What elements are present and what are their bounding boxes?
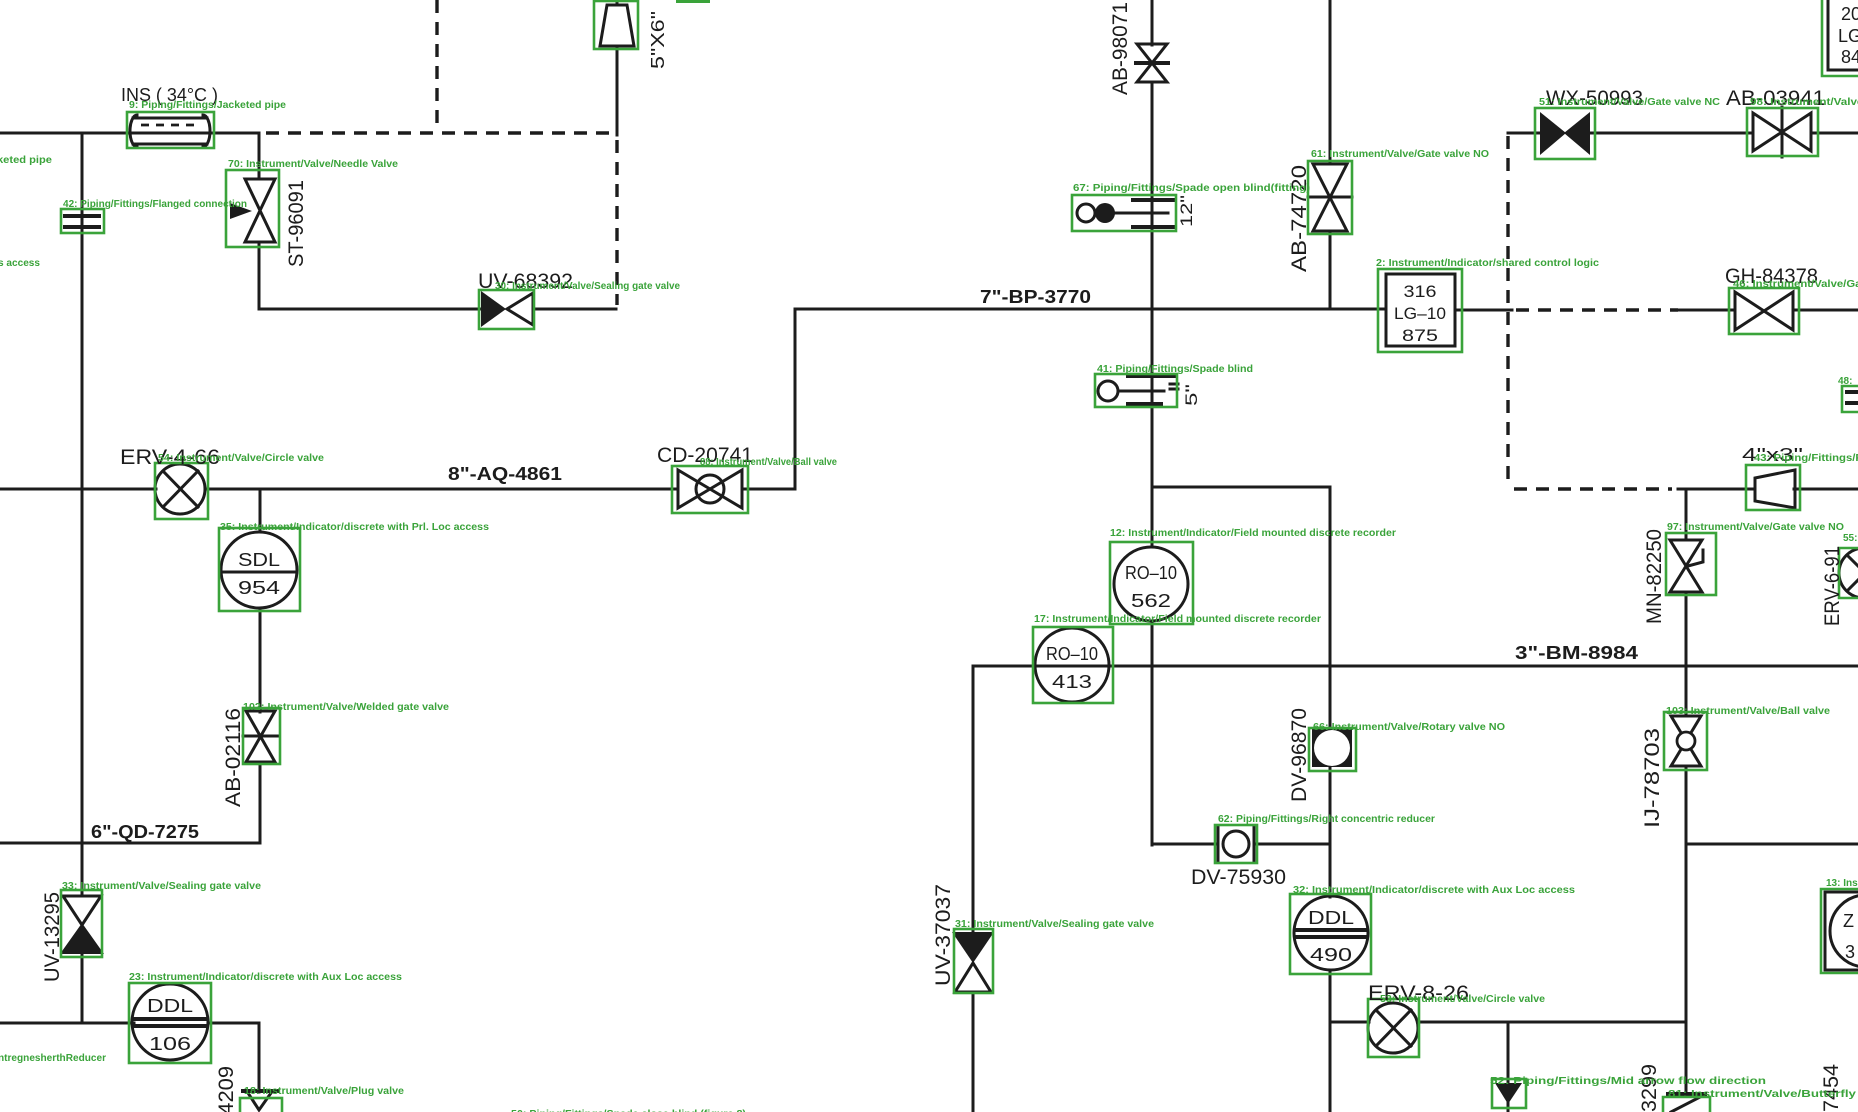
bbox AB-03941 — [1747, 108, 1818, 156]
wire: dashed vertical x=617 down to 7in line — [615, 140, 618, 305]
svg-text:88: Instrument/Valve/Ball valv: 88: Instrument/Valve/Ball valve — [700, 457, 837, 468]
svg-text:17454: 17454 — [1820, 1064, 1843, 1112]
bbox 5x6 reducer — [594, 1, 638, 49]
valve AB-03941 — [1753, 107, 1811, 157]
welded gate valve AB-02116 — [243, 711, 278, 762]
svg-text:DV-75930: DV-75930 — [1191, 866, 1286, 889]
svg-text:Z: Z — [1843, 911, 1854, 931]
svg-text:keted pipe: keted pipe — [0, 155, 52, 166]
svg-text:23: Instrument/Indicator/discr: 23: Instrument/Indicator/discrete with A… — [129, 972, 402, 983]
bbox flanged connection — [61, 209, 104, 233]
wire: DDL-106 run y=1023 right of circle to corner — [208, 1022, 259, 1025]
svg-text:562: 562 — [1131, 591, 1171, 611]
wire: dashed vertical x=437 top — [435, 0, 438, 129]
svg-text:954: 954 — [238, 578, 280, 598]
wire: reducer run y=844 DV-75930 to x=1330 — [1254, 843, 1330, 846]
wire: vertical from needle valve to 7in-BP line — [258, 243, 261, 309]
wire: vertical x=973 from 3in line to UV-37037 — [972, 666, 975, 932]
wire: vertical x=1152 from RO-562 down to corner — [1151, 621, 1154, 845]
svg-text:70: Instrument/Valve/Needle Va: 70: Instrument/Valve/Needle Valve — [228, 159, 398, 170]
wire: 3in-BM-8984 line y=666 — [973, 665, 1858, 668]
wire: vertical x=1330 from branch corner to DV-96870 — [1329, 487, 1332, 730]
svg-text:2: Instrument/Indicator/shared: 2: Instrument/Indicator/shared control l… — [1376, 258, 1599, 269]
gate valve NC WX-50993 (filled) — [1540, 112, 1590, 155]
instrument ZI (partial right edge) — [1825, 892, 1858, 970]
wire: dashed signal line y=133 from corner to reducer drop — [266, 131, 613, 134]
svg-text:51: Instrument/Valve/Gate valv: 51: Instrument/Valve/Gate valve NC — [1539, 97, 1720, 108]
svg-text:48:: 48: — [1838, 376, 1852, 387]
svg-text:9: Piping/Fittings/Jacketed pi: 9: Piping/Fittings/Jacketed pipe — [129, 100, 286, 111]
wire: far-left vertical header x=82 — [81, 133, 84, 896]
svg-text:MN-82250: MN-82250 — [1643, 529, 1666, 624]
bbox RO-413 — [1033, 627, 1113, 703]
svg-text:413: 413 — [1052, 672, 1092, 692]
indicator DDL-106 — [132, 984, 208, 1060]
bbox UV-37037 — [954, 929, 993, 993]
svg-text:ntregnesherth­Reducer: ntregnesherth­Reducer — [0, 1053, 106, 1064]
svg-text:IJ-78703: IJ-78703 — [1641, 728, 1664, 828]
wire: AB-74720 vertical below valve to 7in line — [1329, 232, 1332, 309]
wire: 7in-BP-3770 line from riser to 316 logic box — [795, 308, 1385, 311]
svg-text:UV-13295: UV-13295 — [41, 892, 64, 982]
sealing gate valve UV-13295 — [60, 896, 104, 954]
svg-text:52: Piping/Fittings/Mid arrow: 52: Piping/Fittings/Mid arrow flow direc… — [1490, 1076, 1766, 1087]
ball valve IJ-78703 — [1671, 716, 1701, 766]
wire: drop x=1508 from ERV line through flow arrow — [1507, 1022, 1510, 1084]
4x3 concentric reducer — [1755, 470, 1795, 508]
svg-text:103: Instrument/Valve/Ball val: 103: Instrument/Valve/Ball valve — [1666, 706, 1830, 717]
svg-text:RO–10: RO–10 — [1046, 644, 1098, 664]
flanged connection 48 (partial right edge) — [1847, 392, 1858, 403]
wire: dashed vertical x=1508 — [1506, 136, 1509, 487]
rotary valve NO DV-96870 — [1312, 729, 1352, 767]
wire: DDL-106 run y=1023 from left edge — [0, 1022, 134, 1025]
bbox ERV-6-91 (partial) — [1839, 548, 1858, 598]
svg-text:490: 490 — [1310, 945, 1352, 965]
svg-text:42: Piping/Fittings/Flanged co: 42: Piping/Fittings/Flanged connection — [63, 199, 247, 210]
jacketed pipe INS(34C) — [129, 115, 211, 147]
wire: riser x=795 from 8in line up to 7in line — [794, 309, 797, 489]
wire: AB-74720 vertical above valve — [1329, 0, 1332, 163]
gate valve GH-84378 — [1735, 292, 1793, 330]
bbox AB-02116 — [243, 708, 280, 764]
5x6 concentric reducer top — [600, 5, 634, 46]
svg-text:20: 20 — [1841, 4, 1858, 24]
wire: vertical from corner down to needle valve ST-96091 — [258, 133, 261, 179]
bbox needle valve — [226, 170, 279, 247]
svg-text:66: Instrument/Valve/Rotary va: 66: Instrument/Valve/Rotary valve NO — [1313, 722, 1505, 733]
wire: line y=133 between jacketed pipe and corner — [209, 132, 259, 135]
svg-text:46: Instrument/Valve/Gate valv: 46: Instrument/Valve/Gate valve — [1733, 279, 1858, 290]
recorder RO-10 562 — [1114, 547, 1188, 621]
bbox UV-13295 — [61, 890, 102, 957]
gate valve AB-98071 — [1136, 44, 1168, 82]
svg-text:81: Instrument/Valve/Butterfly: 81: Instrument/Valve/Butterfly valve — [1668, 1089, 1858, 1100]
bbox 4x3 reducer — [1746, 465, 1800, 510]
wire: y=133 right of AB-03941 to edge — [1812, 132, 1858, 135]
bbox butterfly valve (partial) — [1663, 1097, 1710, 1112]
svg-text:AB-98071: AB-98071 — [1109, 2, 1132, 95]
wire: solid y=310 to GH-84378 — [1678, 309, 1735, 312]
svg-text:54: Instrument/Valve/Circle va: 54: Instrument/Valve/Circle valve — [158, 453, 324, 464]
bbox plug valve — [240, 1098, 282, 1112]
svg-text:ST-96091: ST-96091 — [285, 180, 308, 267]
sealing gate valve UV-68392 — [481, 291, 533, 327]
wire: y=489 right of 4x3 reducer to edge — [1794, 488, 1858, 491]
wire: ERV-8-26 run y=1022 left segment — [1330, 1021, 1369, 1024]
svg-text:7"-BP-3770: 7"-BP-3770 — [980, 287, 1091, 307]
circle valve ERV-4-66 — [155, 464, 205, 514]
butterfly valve bottom right (partial) — [1668, 1094, 1705, 1112]
wire: y=133 between WX-50993 and AB-03941 — [1589, 132, 1753, 135]
wire: x=1686 MN-82250 to 3in line — [1685, 593, 1688, 666]
gate valve NO AB-74720 — [1308, 164, 1352, 231]
bbox DDL-106 — [129, 983, 211, 1063]
wire: top gate line y=133 from dashed corner to WX-50993 — [1508, 132, 1541, 135]
wire: dashed y=489 from x=1508 to corner — [1514, 487, 1672, 490]
wire: vertical x=1330 DV-96870 to DDL-490 — [1329, 767, 1332, 897]
flow arrow 52 — [1495, 1083, 1522, 1104]
bbox ERV-8-26 — [1368, 999, 1419, 1057]
svg-text:55:: 55: — [1843, 533, 1857, 544]
bbox MN-82250 — [1666, 533, 1716, 595]
svg-text:17: Instrument/Indicator/Field: 17: Instrument/Indicator/Field mounted d… — [1034, 614, 1321, 625]
svg-text:SDL: SDL — [238, 550, 280, 570]
svg-text:-4209: -4209 — [215, 1066, 238, 1112]
svg-text:3"-BM-8984: 3"-BM-8984 — [1515, 643, 1638, 663]
svg-text:316: 316 — [1404, 282, 1437, 301]
wire: solid stub from 316 box to dashed corner — [1456, 309, 1512, 312]
wire: 8in-AQ-4861 line between ERV-4-66 and CD-20741 — [205, 488, 678, 491]
svg-text:DDL: DDL — [147, 996, 193, 1016]
circle valve ERV-6-91 (partial right edge) — [1839, 548, 1858, 598]
bbox DV-96870 — [1309, 728, 1356, 771]
svg-text:13: Ins: 13: Ins — [1826, 878, 1858, 889]
svg-text:84: 84 — [1841, 47, 1858, 67]
recorder RO-10 413 — [1035, 628, 1109, 702]
bbox 48 (partial) — [1842, 386, 1858, 412]
wire: x=1508 below arrow to bottom — [1507, 1100, 1510, 1112]
svg-text:18: Instrument/Valve/Plug valv: 18: Instrument/Valve/Plug valve — [244, 1086, 404, 1097]
wire: x=1686 from 3in line to IJ-78703 — [1685, 666, 1688, 716]
bbox DDL-490 — [1290, 894, 1371, 974]
svg-text:AB-02116: AB-02116 — [222, 708, 245, 807]
wire: AB-98071 vertical below valve through spade to RO-562 — [1151, 82, 1154, 547]
svg-text:DV-96870: DV-96870 — [1288, 708, 1311, 802]
svg-text:67: Piping/Fittings/Spade open: 67: Piping/Fittings/Spade open blind(fit… — [1073, 183, 1310, 194]
svg-text:41: Piping/Fittings/Spade blin: 41: Piping/Fittings/Spade blind — [1097, 364, 1253, 375]
wire: vertical above 5x6 reducer — [616, 0, 619, 5]
bbox 316 box — [1378, 269, 1462, 352]
wire: y=310 right of GH-84378 to edge — [1794, 309, 1858, 312]
wire: 7in-BP-3770 line right of UV-68392 — [533, 308, 616, 311]
svg-text:UV-37037: UV-37037 — [932, 884, 955, 986]
wire: branch y=844 from x=1686 to right edge — [1686, 843, 1858, 846]
svg-text:30: Instrument/Valve/Sealing g: 30: Instrument/Valve/Sealing gate valve — [495, 281, 680, 292]
bbox DV-75930 — [1215, 825, 1257, 863]
wire: 7in-BP-3770 line left of UV-68392 — [259, 308, 481, 311]
concentric reducer DV-75930 — [1218, 827, 1254, 861]
wire: x=1686 below IJ-78703 to butterfly at bottom — [1685, 766, 1688, 1093]
bbox GH-84378 — [1729, 288, 1799, 334]
wire: branch y=487 from x=1152 to x=1330 — [1152, 486, 1330, 489]
wire: vertical x=260 from 6in line up to AB-02116 — [259, 762, 262, 843]
wire: x=260 AB-02116 to SDL-954 — [259, 610, 262, 712]
svg-text:32: Instrument/Indicator/discr: 32: Instrument/Indicator/discrete with A… — [1293, 885, 1575, 896]
svg-text:102: Instrument/Valve/Welded g: 102: Instrument/Valve/Welded gate valve — [243, 702, 449, 713]
wire: 6in-QD-7275 line y=843 — [0, 842, 260, 845]
svg-text:61: Instrument/Valve/Gate valv: 61: Instrument/Valve/Gate valve NO — [1311, 149, 1489, 160]
bbox logic box top right (partial) — [1822, 0, 1858, 76]
bbox IJ-78703 — [1664, 712, 1707, 770]
wire: ERV-8-26 run y=1022 to x=1686 — [1418, 1021, 1686, 1024]
sealing gate valve UV-37037 — [952, 932, 994, 992]
wire: 8in-AQ-4861 line from left edge to ERV-4-66 — [0, 488, 156, 491]
wire: main jacketed line y=133 left segment — [0, 132, 131, 135]
wire: vertical below 5x6 reducer to dashed junction — [616, 46, 619, 135]
ball valve CD-20741 — [678, 470, 742, 508]
bbox UV-68392 — [479, 290, 534, 329]
svg-text:DDL: DDL — [1308, 908, 1354, 928]
svg-text:43299: 43299 — [1638, 1064, 1661, 1112]
bbox jacketed pipe — [127, 112, 214, 148]
svg-text:106: 106 — [149, 1034, 191, 1054]
plug valve bottom left (partial) — [243, 1091, 277, 1110]
bbox SDL-954 — [219, 528, 300, 611]
svg-text:AB-74720: AB-74720 — [1288, 165, 1311, 272]
wire: vertical x=1330 below DDL-490 to bottom edge — [1329, 970, 1332, 1112]
bbox WX-50993 — [1535, 108, 1595, 159]
svg-text:98: Instrument/Valve/Gate valv: 98: Instrument/Valve/Gate valve — [1750, 97, 1858, 108]
gate valve NO MN-82250 — [1670, 540, 1703, 592]
svg-text:33: Instrument/Valve/Sealing g: 33: Instrument/Valve/Sealing gate valve — [62, 881, 261, 892]
needle valve ST-96091 — [230, 179, 275, 242]
svg-text:43: Piping/Fittings/Right conc: 43: Piping/Fittings/Right conc — [1754, 453, 1858, 464]
label top strip (partial) — [676, 0, 710, 3]
shared control logic box 316 LG-10 875 — [1386, 274, 1455, 346]
wire: drop x=1686 from y=489 to MN-82250 — [1685, 489, 1688, 540]
svg-text:5"X6": 5"X6" — [648, 11, 668, 69]
svg-text:LG–: LG– — [1838, 26, 1858, 46]
wire: 8in-AQ-4861 line right of CD-20741 to riser corner — [742, 488, 795, 491]
bbox ERV-4-66 — [155, 463, 208, 519]
bbox spectacle blind — [1072, 195, 1176, 231]
bbox spade blind — [1095, 374, 1177, 407]
wire: x=260 above SDL-954 to 8in line — [259, 489, 262, 530]
svg-text:62: Piping/Fittings/Right conc: 62: Piping/Fittings/Right concentric red… — [1218, 814, 1435, 825]
bbox ZI instrument (partial) — [1821, 889, 1858, 973]
svg-text:ERV-6-91: ERV-6-91 — [1821, 546, 1844, 626]
svg-text:53: Instrument/Valve/Circle va: 53: Instrument/Valve/Circle valve — [1380, 994, 1545, 1005]
svg-text:6"-QD-7275: 6"-QD-7275 — [91, 822, 199, 842]
wire: vertical x=82 below UV-13295 to DDL-106 line — [81, 954, 84, 1023]
svg-text:3: 3 — [1845, 942, 1855, 962]
indicator DDL-490 — [1294, 896, 1368, 970]
indicator SDL-954 — [221, 532, 297, 608]
spectacle blind open 67 — [1077, 200, 1175, 227]
svg-text:12": 12" — [1177, 195, 1196, 227]
svg-text:97: Instrument/Valve/Gate valv: 97: Instrument/Valve/Gate valve NO — [1667, 522, 1844, 533]
wire: reducer run y=844 from corner to DV-75930 — [1152, 843, 1218, 846]
wire: solid y=489 corner to 4x3 reducer — [1678, 488, 1755, 491]
svg-text:s access: s access — [0, 258, 40, 269]
bbox CD-20741 — [672, 466, 748, 513]
svg-text:31: Instrument/Valve/Sealing g: 31: Instrument/Valve/Sealing gate valve — [955, 919, 1154, 930]
circle valve ERV-8-26 — [1368, 1003, 1418, 1053]
wire: vertical x=973 below UV-37037 to bottom — [972, 992, 975, 1112]
svg-text:LG–10: LG–10 — [1394, 304, 1446, 323]
bbox flow arrow — [1492, 1079, 1526, 1108]
wire: dashed 7in continuation y=310 — [1516, 308, 1678, 311]
svg-text:875: 875 — [1402, 326, 1438, 345]
wire: AB-98071 vertical above valve — [1151, 0, 1154, 45]
bbox RO-562 — [1110, 542, 1193, 624]
svg-text:35: Instrument/Indicator/discr: 35: Instrument/Indicator/discrete with P… — [220, 522, 489, 533]
svg-text:RO–10: RO–10 — [1125, 563, 1177, 583]
flanged connection 42 — [65, 216, 99, 227]
svg-text:12: Instrument/Indicator/Field: 12: Instrument/Indicator/Field mounted d… — [1110, 528, 1396, 539]
svg-text:8"-AQ-4861: 8"-AQ-4861 — [448, 464, 562, 484]
bbox AB-74720 — [1308, 161, 1352, 234]
svg-text:5": 5" — [1182, 384, 1201, 406]
spade blind 41 — [1098, 376, 1178, 404]
logic box top right (partial) — [1828, 0, 1858, 70]
wire: drop x=259 from DDL-106 run to plug valve — [258, 1023, 261, 1092]
